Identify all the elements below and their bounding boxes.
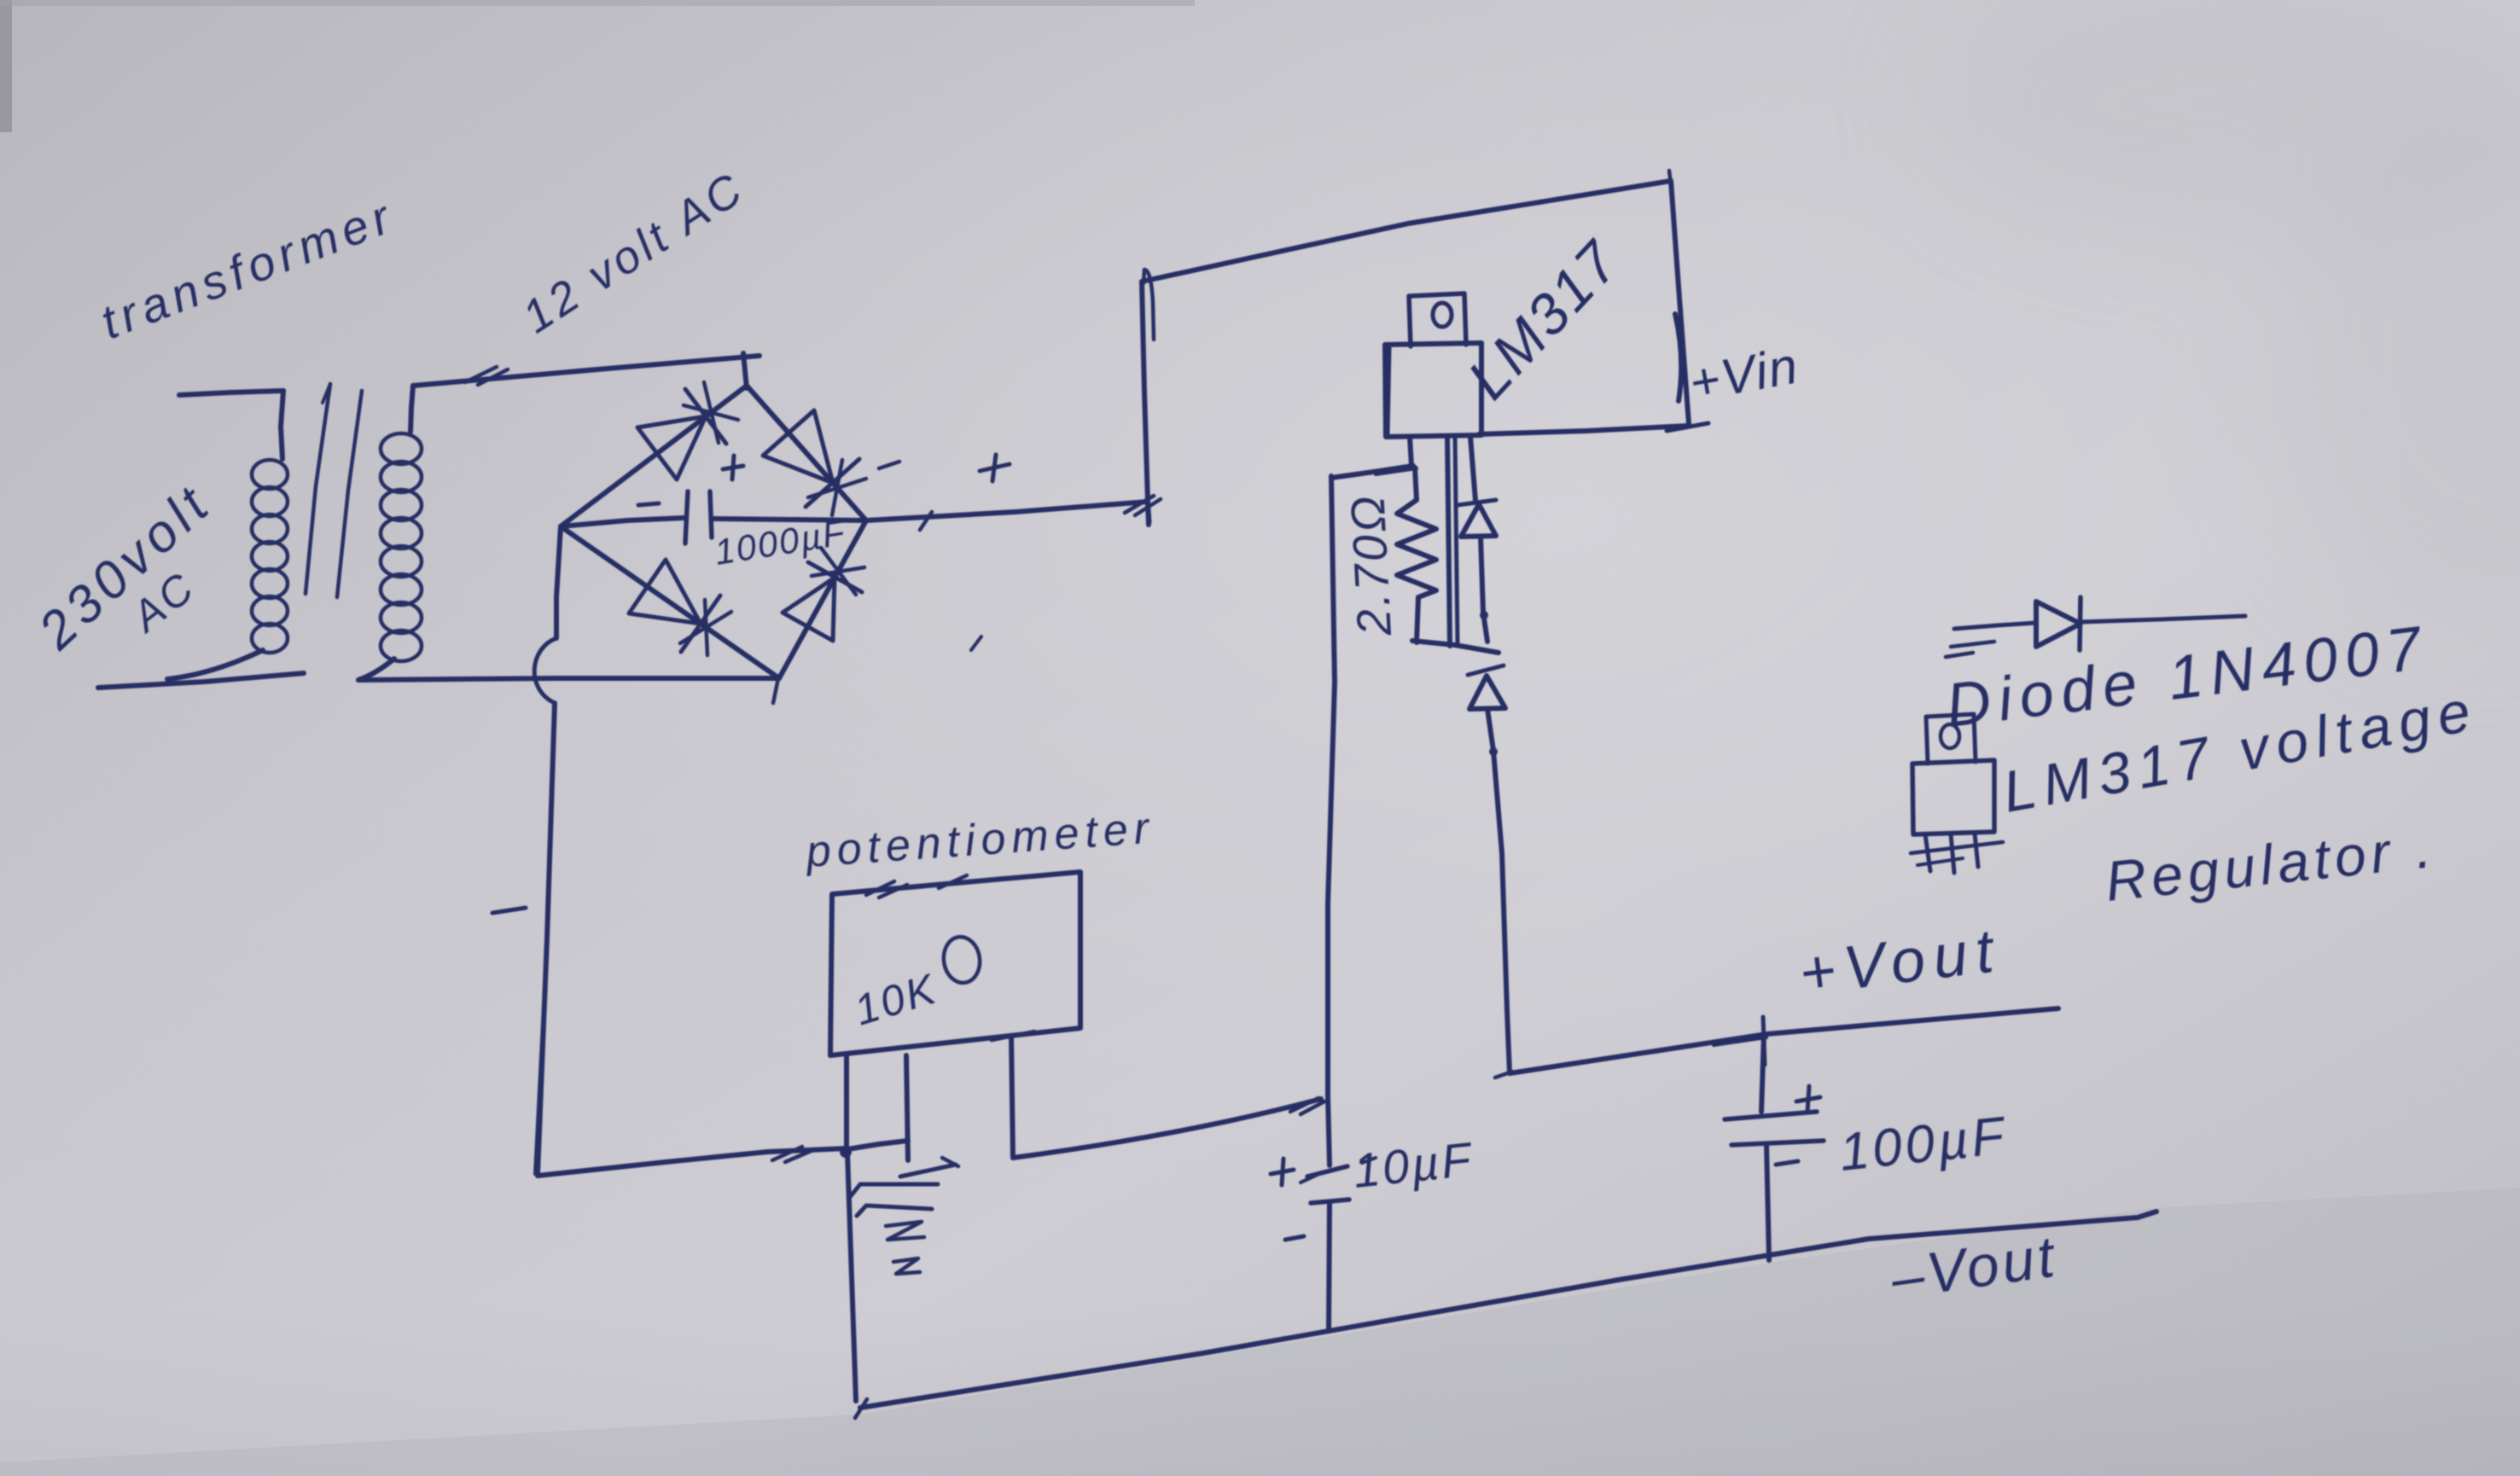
bridge diode D4 (bottom-right edge) — [783, 548, 864, 641]
wire +Vout rail — [1510, 1008, 2058, 1073]
bridge diode D1 (top-left edge) — [637, 382, 738, 479]
diode D6 — [1468, 665, 1505, 709]
transformer core — [306, 384, 362, 597]
RV1 pin 1 (left) — [840, 1055, 856, 1401]
capacitor C1 1000uF plates — [685, 491, 712, 543]
wire ADJ connector — [1412, 641, 1499, 653]
C2 polarity — [1271, 1159, 1304, 1240]
node junction + rail — [1125, 482, 1161, 522]
wire junction to pin2 — [847, 1141, 908, 1149]
RV1 dial circle — [940, 934, 982, 985]
C3 polarity — [1776, 1086, 1820, 1165]
wire left rail from bridge left corner — [534, 526, 561, 1174]
potentiometer RV1 box — [830, 872, 1080, 1055]
diode D5 — [1458, 500, 1496, 537]
capacitor C2 10uF — [1301, 1095, 1376, 1331]
wire OUT rail (long vertical) — [1328, 476, 1335, 1095]
pin ADJ (middle) — [1447, 437, 1450, 646]
wire LM317 IN to +Vin — [1479, 426, 1689, 434]
RV1 wiper pin — [992, 1031, 1034, 1158]
wire secondary bottom — [358, 678, 779, 680]
bridge diode D3 (bottom-left edge) — [629, 560, 731, 655]
wire secondary top (12V rail) — [413, 356, 759, 386]
legend diode symbol — [1946, 597, 2245, 657]
capacitor C3 100uF — [1725, 1034, 1824, 1260]
wire D6 branch down to output — [1487, 709, 1512, 1078]
regulator U1 LM317 tab — [1409, 293, 1466, 346]
legend LM317 package symbol — [1911, 714, 2003, 873]
label "-" left rail — [492, 908, 526, 913]
ground — [850, 1158, 958, 1274]
bridge diode D2 (top-right edge) — [763, 410, 866, 515]
wire input loop (junction up, over to +Vin) — [1142, 171, 1708, 525]
wire wiper to OUT node — [1013, 1098, 1324, 1158]
label "230 volt AC" — [27, 473, 224, 661]
pin OUT (left) — [1410, 437, 1411, 466]
wire bridge centre — [561, 518, 866, 526]
wire primary bottom lead — [98, 650, 304, 688]
RV1 pin 2 (middle) — [906, 1055, 908, 1160]
C1 polarity marks — [638, 456, 743, 505]
label "+" near output — [879, 455, 1010, 481]
regulator U1 LM317 body — [1385, 343, 1481, 437]
pin IN (right) — [1470, 437, 1475, 501]
wire OUT horizontal — [1331, 466, 1417, 478]
transformer secondary winding — [358, 386, 422, 680]
bridge edges — [561, 386, 866, 703]
wire primary top lead — [179, 391, 283, 395]
wire D5 to node — [1480, 537, 1488, 642]
wire bridge top stub — [743, 353, 747, 388]
resistor R1 270 ohm — [1397, 468, 1436, 642]
svg-text:2.70Ω: 2.70Ω — [1340, 492, 1401, 638]
transformer primary winding — [252, 460, 288, 653]
wire bridge + output — [866, 502, 1148, 650]
wire -Vout rail — [855, 1212, 2156, 1418]
wire left rail to potentiometer — [538, 1147, 847, 1176]
